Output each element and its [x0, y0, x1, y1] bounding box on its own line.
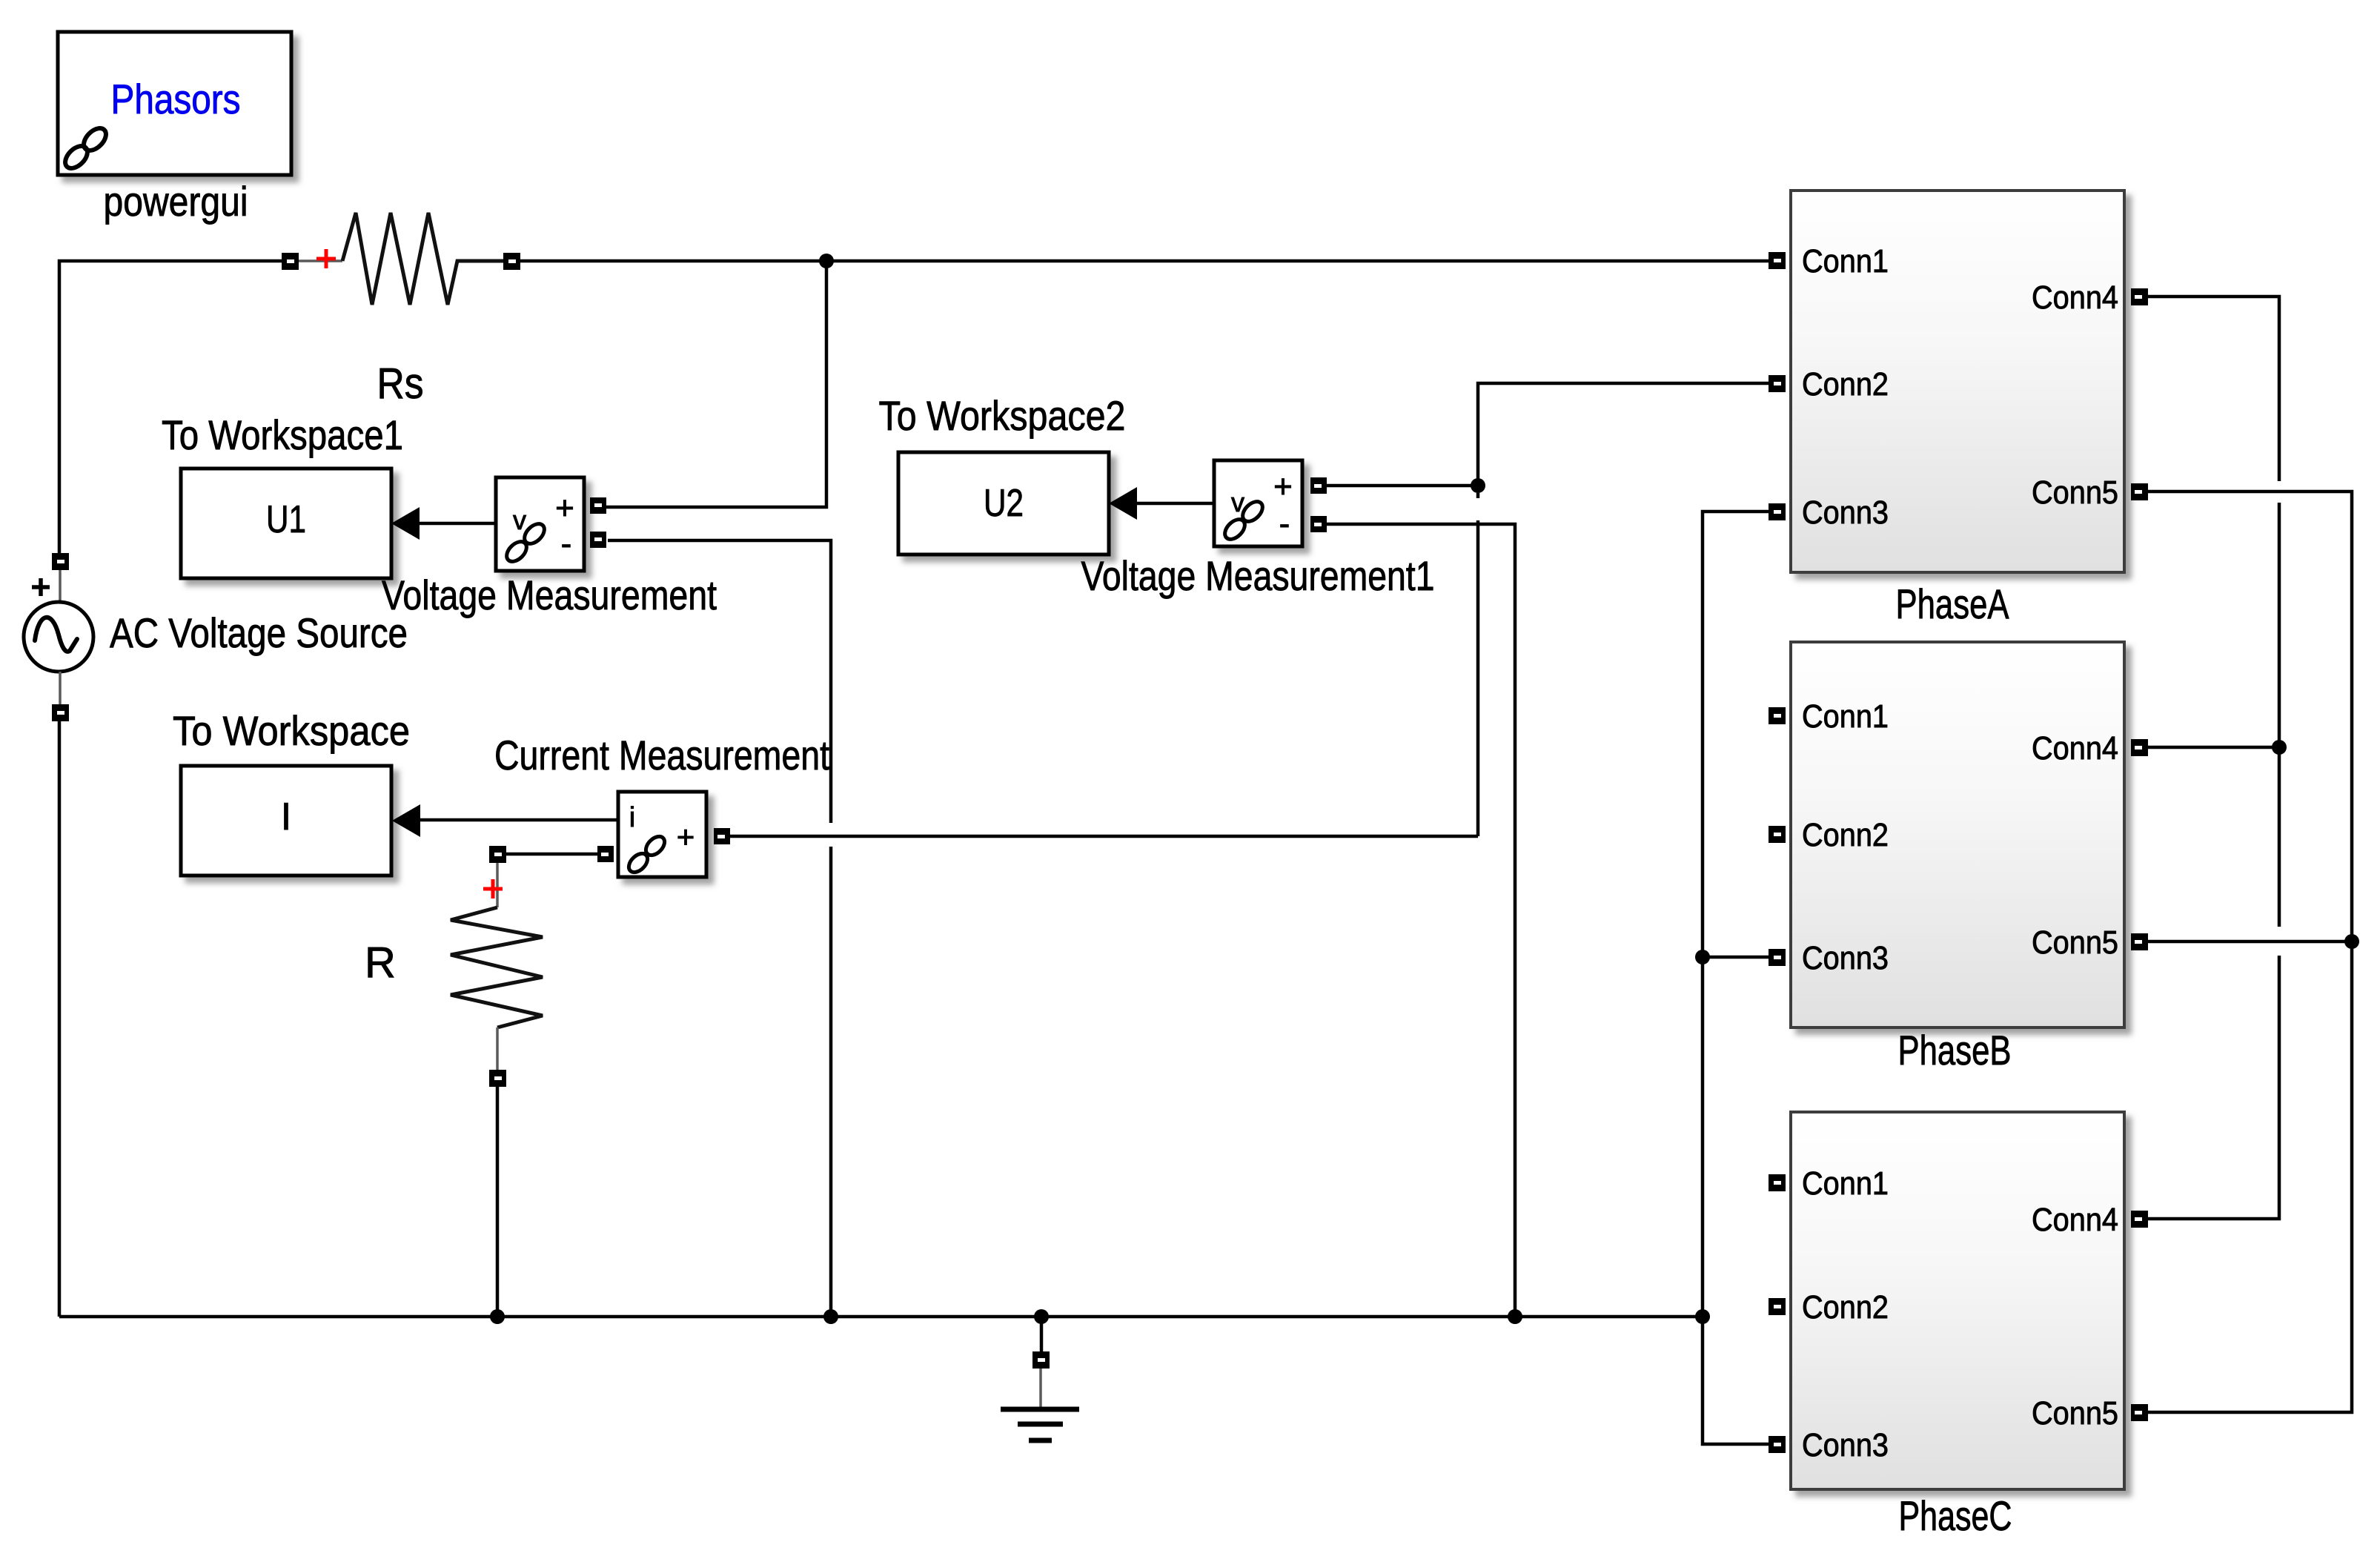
wire PhaseA Conn3 down to PhaseC Conn3 — [1703, 512, 1769, 1444]
svg-text:i: i — [629, 802, 635, 833]
wire bottom-left vertical — [58, 721, 62, 1317]
svg-text:Conn5: Conn5 — [2032, 474, 2118, 511]
svg-text:Conn2: Conn2 — [1802, 817, 1889, 853]
Voltage Measurement1 label — [1081, 552, 1435, 599]
To Workspace block I — [181, 766, 420, 876]
svg-text:Conn4: Conn4 — [2032, 1202, 2118, 1238]
svg-text:PhaseA: PhaseA — [1896, 580, 2010, 627]
svg-text:+: + — [1273, 469, 1293, 505]
junction VM- bottom rail — [823, 1309, 838, 1324]
AC voltage source — [24, 553, 93, 721]
wire PhaseA Conn4 to PhaseC Conn4 — [2148, 297, 2279, 1219]
subsystem PhaseA — [1769, 191, 2148, 572]
powergui block — [58, 32, 291, 175]
Voltage Measurement label — [382, 572, 717, 618]
svg-text:I: I — [281, 795, 291, 838]
svg-text:To Workspace1: To Workspace1 — [162, 411, 403, 458]
PhaseA label — [1896, 580, 2010, 627]
svg-text:Conn4: Conn4 — [2032, 730, 2118, 767]
svg-text:Conn4: Conn4 — [2032, 279, 2118, 316]
Voltage Measurement1 block — [1214, 460, 1327, 546]
svg-text:-: - — [1279, 506, 1290, 542]
wire PhaseA Conn5 to PhaseC Conn5 — [2148, 492, 2352, 1412]
junction rail end — [1695, 1309, 1710, 1324]
svg-text:Conn1: Conn1 — [1802, 243, 1889, 279]
resistor Rs — [282, 213, 520, 305]
svg-text:PhaseB: PhaseB — [1898, 1027, 2012, 1073]
resistor R — [451, 846, 543, 1087]
junction PhaseB Conn4 — [2272, 740, 2287, 755]
wire CM to I — [420, 818, 618, 822]
wire CM+ to VM1 junction — [730, 835, 1478, 838]
svg-text:+: + — [555, 490, 574, 526]
wire CM- to R top — [505, 853, 597, 856]
To Workspace1 block U1 — [181, 469, 420, 578]
powergui link icon — [61, 124, 110, 172]
PhaseC label — [1899, 1492, 2012, 1539]
To Workspace label — [173, 707, 410, 754]
wire junction up to Conn2 — [1478, 383, 1769, 486]
wire VM- down to bottom rail — [608, 540, 831, 1317]
svg-text:R: R — [365, 939, 396, 987]
ground — [1001, 1317, 1079, 1440]
R label — [365, 939, 396, 987]
svg-text:-: - — [561, 526, 572, 562]
Current Measurement label — [494, 732, 829, 778]
Current Measurement block — [597, 792, 730, 877]
svg-text:Conn5: Conn5 — [2032, 924, 2118, 961]
powergui Phasors label — [111, 76, 241, 122]
To Workspace2 block U2 — [898, 452, 1137, 555]
svg-text:Current Measurement: Current Measurement — [494, 732, 829, 778]
junction R rail — [490, 1309, 505, 1324]
svg-text:PhaseC: PhaseC — [1899, 1492, 2012, 1539]
wire PhaseB Conn4 — [2148, 746, 2279, 749]
wire VM1 to U2 — [1137, 502, 1214, 506]
junction PhaseB Conn5 — [2344, 934, 2359, 949]
svg-text:powergui: powergui — [104, 178, 248, 225]
powergui label — [104, 178, 248, 225]
Voltage Measurement block — [496, 477, 606, 571]
svg-text:v: v — [513, 505, 526, 535]
junction PhaseB Conn3 — [1695, 950, 1710, 964]
svg-text:Conn5: Conn5 — [2032, 1395, 2118, 1432]
wire R bottom to rail — [496, 1087, 500, 1317]
svg-text:Voltage Measurement1: Voltage Measurement1 — [1081, 552, 1435, 599]
wire bottom rail — [59, 1315, 1703, 1319]
wire junction down to CM+ — [1476, 493, 1480, 836]
svg-text:To Workspace2: To Workspace2 — [879, 392, 1126, 439]
Rs label — [377, 360, 424, 408]
junction VM1+ — [1471, 478, 1485, 493]
wire PhaseB Conn3 — [1703, 956, 1769, 959]
svg-text:Conn2: Conn2 — [1802, 1289, 1889, 1326]
svg-text:+: + — [677, 819, 695, 854]
svg-text:To Workspace: To Workspace — [173, 707, 410, 754]
wire PhaseB Conn5 — [2148, 940, 2352, 944]
junction ground rail — [1034, 1309, 1049, 1324]
AC Voltage Source label — [110, 609, 408, 656]
PhaseB label — [1898, 1027, 2012, 1073]
wire top rail to Conn1 — [520, 259, 1769, 263]
subsystem PhaseC — [1769, 1112, 2148, 1489]
junction VM1- rail — [1508, 1309, 1522, 1324]
svg-text:AC Voltage Source: AC Voltage Source — [110, 609, 408, 656]
To Workspace2 label — [879, 392, 1126, 439]
svg-text:U1: U1 — [266, 498, 306, 541]
svg-text:Rs: Rs — [377, 360, 424, 408]
junction top rail — [819, 254, 834, 268]
To Workspace1 label — [162, 411, 403, 458]
svg-text:Conn1: Conn1 — [1802, 698, 1889, 735]
svg-text:Phasors: Phasors — [111, 76, 241, 122]
svg-text:Voltage Measurement: Voltage Measurement — [382, 572, 717, 618]
subsystem PhaseB — [1769, 642, 2148, 1027]
wire VM1+ junction — [1327, 484, 1478, 488]
svg-text:U2: U2 — [984, 482, 1024, 525]
svg-text:Conn3: Conn3 — [1802, 940, 1889, 976]
wire top rail left segment — [59, 261, 282, 553]
svg-text:Conn2: Conn2 — [1802, 366, 1889, 403]
wire VM1- down — [1327, 524, 1515, 1317]
svg-text:Conn1: Conn1 — [1802, 1165, 1889, 1202]
svg-text:Conn3: Conn3 — [1802, 1427, 1889, 1463]
wire VM+ up to rail — [606, 261, 826, 507]
svg-text:Conn3: Conn3 — [1802, 494, 1889, 531]
wire VM to U1 — [420, 522, 496, 526]
